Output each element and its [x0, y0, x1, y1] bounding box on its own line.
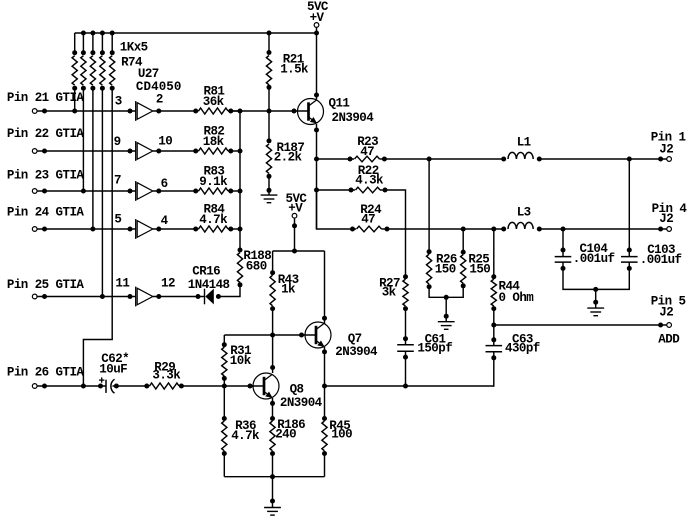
svg-text:1k: 1k	[281, 283, 296, 297]
wire: C63 to rail (bend)	[491, 351, 496, 386]
resistor R36	[222, 386, 227, 477]
svg-text:4.3k: 4.3k	[355, 173, 384, 187]
svg-text:100: 100	[331, 428, 352, 442]
label R187	[277, 141, 305, 155]
power terminal 5VC +V (top)	[314, 23, 319, 33]
label +V (mid supply)	[288, 201, 303, 215]
ground (R26/R25)	[438, 322, 455, 330]
wire: bottom rail	[224, 474, 324, 479]
svg-text:CR16: CR16	[192, 265, 220, 279]
buffer U27 D (pins 5->4)	[136, 219, 153, 239]
wire: Q7 emitter node to R45	[322, 384, 327, 422]
label 36k (R81 value)	[203, 95, 225, 109]
label 240 (R186 value)	[275, 428, 296, 442]
svg-text:+V: +V	[310, 11, 325, 25]
capacitor C104 .001uf	[555, 257, 572, 263]
label C104	[580, 242, 609, 256]
label Pin 24 GTIA	[7, 206, 85, 220]
wire: ADD line to Pin 5 J2	[494, 323, 667, 328]
label R83	[204, 165, 225, 179]
svg-text:7: 7	[114, 174, 121, 188]
svg-text:9: 9	[114, 135, 121, 149]
wire: Q7 emitter rail to C61/C63	[325, 384, 494, 389]
wire: Pin 22 to buffer input	[37, 149, 136, 154]
label 3.3k (R29 value)	[152, 368, 181, 382]
resistor R25	[461, 229, 466, 288]
resistor R31	[222, 342, 227, 386]
resistor R21	[266, 33, 271, 111]
svg-text:2.2k: 2.2k	[274, 151, 303, 165]
label 47 (R24 value)	[361, 212, 375, 226]
label R27	[379, 277, 400, 291]
pin number 4 (buffer output)	[161, 214, 169, 228]
svg-text:9.1k: 9.1k	[199, 175, 228, 189]
wire: emitter node corner to R24	[317, 190, 357, 232]
resistor R44	[491, 229, 496, 311]
svg-text:36k: 36k	[203, 95, 225, 109]
svg-text:Pin 23 GTIA: Pin 23 GTIA	[7, 168, 85, 182]
svg-text:Pin 21 GTIA: Pin 21 GTIA	[7, 91, 85, 105]
resistor R187	[266, 111, 271, 195]
label R31	[230, 344, 251, 358]
terminal Pin 4 J2	[667, 227, 672, 232]
label Q7	[348, 332, 362, 346]
wire: L3 to Pin 4 J2	[539, 227, 667, 232]
terminal Pin 23 GTIA	[32, 189, 37, 194]
resistor R83	[199, 188, 234, 194]
wire: buffer 6 output to R83	[153, 189, 199, 194]
wire: Q7 collector	[322, 251, 327, 324]
wire: buffer 2 output to R81	[153, 109, 199, 114]
junction: pull-up on Pin24 row	[90, 227, 95, 232]
svg-text:3.3k: 3.3k	[152, 368, 181, 382]
junction: rail row23	[238, 189, 243, 194]
wire: L3 row to C104	[561, 229, 566, 257]
label 1.5k (R21 value)	[280, 62, 309, 76]
label 1N4148 (CR16 value)	[188, 278, 230, 292]
capacitor C62* 10uF (polarized)	[99, 377, 115, 393]
resistor R74 element 3 (1K)	[90, 33, 95, 91]
resistor R188	[237, 248, 242, 288]
wire: Pin 24 to buffer input	[37, 227, 136, 232]
diode CR16 1N4148	[205, 289, 214, 305]
svg-text:Q11: Q11	[329, 97, 350, 111]
label Pin 22 GTIA	[7, 127, 85, 141]
label R82	[204, 125, 225, 139]
label R21	[283, 53, 304, 67]
inductor L1	[501, 152, 542, 161]
svg-text:0 Ohm: 0 Ohm	[499, 291, 535, 305]
label C61	[425, 332, 446, 346]
wire: R24 to L3	[387, 227, 504, 232]
label Q11	[329, 97, 350, 111]
terminal Pin 25 GTIA	[32, 294, 37, 299]
svg-text:47: 47	[361, 212, 375, 226]
label 5VC (mid supply)	[286, 192, 308, 206]
wire: pull-up 2 to Pin23 row	[82, 88, 84, 191]
svg-text:2N3904: 2N3904	[280, 396, 323, 410]
junction: pull-up on Pin23 row	[81, 189, 86, 194]
terminal Pin 26 GTIA	[32, 384, 37, 389]
wire: Q7 emitter down	[322, 347, 327, 386]
label 2N3904 (Q11)	[332, 111, 375, 125]
svg-text:.001uf: .001uf	[573, 252, 615, 266]
buffer U27 A (pins 3->2)	[136, 101, 153, 121]
label J2 (Pin 5)	[659, 306, 673, 320]
pin number 12 (buffer output)	[161, 276, 175, 290]
label 10k (R31 value)	[230, 354, 252, 368]
svg-text:3: 3	[115, 95, 122, 109]
label 10uF (C62 value)	[99, 363, 127, 377]
label R45	[329, 419, 350, 433]
label 5VC (top supply)	[307, 0, 329, 14]
svg-text:10k: 10k	[230, 354, 252, 368]
svg-text:L1: L1	[517, 136, 531, 150]
label +V (top supply)	[310, 11, 325, 25]
pin number 5 (buffer input)	[114, 213, 121, 227]
junction dots on +5V bus	[81, 31, 319, 36]
svg-text:J2: J2	[659, 212, 673, 226]
buffer U27 E (pins 11->12)	[136, 287, 153, 307]
wire: Q8 emitter down	[270, 398, 275, 419]
wire: R23 to L1	[382, 157, 504, 162]
pin number 11 (buffer input)	[115, 276, 129, 290]
ground (bottom rail)	[264, 508, 281, 516]
svg-text:2: 2	[156, 93, 163, 107]
wire: Pin 23 to buffer input	[37, 189, 136, 194]
terminal Pin 1 J2	[667, 157, 672, 162]
pin number 9 (buffer input)	[114, 135, 121, 149]
svg-text:J2: J2	[659, 143, 673, 157]
label 430pf (C63 value)	[505, 342, 540, 356]
terminal Pin 24 GTIA	[32, 227, 37, 232]
wire: Pin21 row to Q11 base	[228, 109, 308, 114]
svg-text:.001uf: .001uf	[640, 253, 682, 267]
label R24	[360, 203, 382, 217]
pin number 2 (buffer output)	[156, 93, 163, 107]
label 47 (R23 value)	[360, 145, 374, 159]
label L3	[517, 206, 531, 220]
svg-text:2N3904: 2N3904	[335, 345, 378, 359]
transistor Q8 2N3904	[253, 373, 279, 399]
resistor R74 element 5 (1K)	[110, 33, 115, 91]
svg-text:2N3904: 2N3904	[332, 111, 375, 125]
label R188	[243, 249, 271, 263]
label CR16	[192, 265, 220, 279]
resistor R74 element 1 (1K)	[72, 33, 77, 91]
wire: R82 to summing rail	[228, 150, 240, 152]
wire: buffer 10 output to R82	[153, 149, 199, 154]
wire: pull-up 1 to Pin21 row	[74, 88, 76, 111]
svg-text:10uF: 10uF	[99, 363, 127, 377]
label J2 (Pin 1)	[659, 143, 673, 157]
wire: summing rail (buffer outputs)	[239, 111, 241, 250]
wire: buffer 4 output to R84	[153, 227, 199, 232]
ground (C104/C103)	[587, 308, 604, 316]
label R25	[468, 253, 489, 267]
resistor R23	[355, 156, 387, 162]
terminal Pin 21 GTIA	[32, 109, 37, 114]
label R81	[204, 85, 225, 99]
wire: Q7 base line	[224, 333, 315, 338]
wire: pull-up 3 to Pin24 row	[92, 88, 94, 229]
wire: base node to R31 (bend)	[223, 335, 225, 345]
label 2.2k (R187 value)	[274, 151, 303, 165]
label 4.3k (R22 value)	[355, 173, 384, 187]
wire: R43 to Q7 base node	[270, 309, 275, 338]
label 100 (R45 value)	[331, 428, 352, 442]
wire: R44 to C63	[491, 309, 496, 346]
terminal Pin 22 GTIA	[32, 149, 37, 154]
resistor R74 element 4 (1K)	[100, 33, 105, 91]
label Pin 4	[652, 202, 688, 216]
label Pin 1	[651, 131, 686, 145]
terminal Pin 5 J2	[667, 323, 672, 328]
buffer U27 C (pins 7->6)	[136, 181, 153, 201]
label 1k (R43 value)	[281, 283, 296, 297]
junction: pull-up on Pin21 row	[72, 109, 77, 114]
junction: rail row21	[238, 109, 243, 114]
label 2N3904 (Q8)	[280, 396, 323, 410]
label .001uf (C103 value)	[640, 253, 682, 267]
wire: C104/C103 common to ground	[561, 262, 632, 308]
label L1	[517, 136, 531, 150]
label J2 (Pin 4)	[659, 212, 673, 226]
wire: R188 to CR16 cathode net	[216, 285, 240, 299]
svg-text:240: 240	[275, 428, 296, 442]
resistor R186	[270, 416, 275, 477]
svg-text:10: 10	[158, 135, 172, 149]
label 3k (R27 value)	[382, 286, 397, 300]
svg-text:4.7k: 4.7k	[199, 213, 228, 227]
IC U27 label	[138, 67, 159, 81]
label Pin 23 GTIA	[7, 168, 85, 182]
svg-text:J2: J2	[659, 306, 673, 320]
label .001uf (C104 value)	[573, 252, 615, 266]
svg-text:5: 5	[114, 213, 121, 227]
label 4.7k (R36 value)	[231, 429, 260, 443]
svg-text:4.7k: 4.7k	[231, 429, 260, 443]
label Pin 21 GTIA	[7, 91, 85, 105]
capacitor C63 430pf	[486, 346, 503, 352]
wire: +5V top bus	[75, 32, 317, 34]
resistor R29	[150, 383, 184, 389]
label 150 (R25 value)	[469, 263, 490, 277]
capacitor C103 .001uf	[621, 257, 638, 263]
svg-text:Pin 25 GTIA: Pin 25 GTIA	[7, 278, 85, 292]
svg-text:150: 150	[435, 263, 456, 277]
wire: R43 node to Q8 collector	[270, 335, 275, 373]
label 150pf (C61 value)	[417, 342, 452, 356]
pin number 10 (buffer output)	[158, 135, 172, 149]
label Pin 26 GTIA	[7, 365, 85, 379]
label ADD	[658, 333, 680, 347]
wire: Pin 21 to buffer input	[37, 109, 136, 114]
wire: Pin 26 to C62	[37, 384, 106, 389]
label 1Kx5 (R74 value)	[120, 41, 148, 55]
wire: 5V bus to Q11 collector	[314, 33, 319, 99]
svg-text:430pf: 430pf	[505, 342, 540, 356]
svg-text:12: 12	[161, 276, 175, 290]
label C63	[512, 332, 533, 346]
svg-text:18k: 18k	[203, 135, 225, 149]
svg-text:Q7: Q7	[348, 332, 362, 346]
resistor R82	[199, 148, 234, 154]
wire: emitter node to R23	[317, 157, 355, 162]
wire: emitter node to R22	[317, 188, 356, 193]
svg-text:1N4148: 1N4148	[188, 278, 230, 292]
label R43	[278, 273, 299, 287]
label Pin 25 GTIA	[7, 278, 85, 292]
label 9.1k (R83 value)	[199, 175, 228, 189]
label Q8	[290, 383, 304, 397]
resistor R45	[322, 421, 327, 477]
label 18k (R82 value)	[203, 135, 225, 149]
svg-text:Q8: Q8	[290, 383, 304, 397]
buffer U27 B (pins 9->10)	[136, 141, 153, 161]
wire: pull-up 5 to Pin26 row (bend)	[83, 88, 112, 386]
wire: pull-up 4 to Pin25 row	[101, 88, 103, 296]
svg-text:L3: L3	[517, 206, 531, 220]
wire: R83 to summing rail	[228, 190, 240, 192]
wire: R29 to Q8 base	[179, 384, 263, 389]
svg-text:Pin 26 GTIA: Pin 26 GTIA	[7, 365, 85, 379]
label R22	[358, 164, 379, 178]
label Pin 5	[651, 295, 686, 309]
wire: Pin 25 to buffer input	[37, 294, 136, 299]
label 4.7k (R84 value)	[199, 213, 228, 227]
svg-text:6: 6	[161, 177, 168, 191]
label 680 (R188 value)	[246, 260, 267, 274]
resistor R27	[403, 274, 408, 311]
transistor Q7 2N3904	[305, 322, 331, 348]
svg-text:ADD: ADD	[658, 333, 680, 347]
wire: Q11 emitter down	[314, 124, 319, 229]
svg-text:1Kx5: 1Kx5	[120, 41, 148, 55]
wire: 5V to R43 and Q7 collector	[273, 250, 325, 252]
resistor R24	[357, 226, 390, 232]
wire: C103 column from L1 row	[627, 159, 632, 257]
label R44	[499, 279, 521, 293]
svg-text:680: 680	[246, 260, 267, 274]
svg-text:150pf: 150pf	[417, 342, 452, 356]
junction: pull-up on Pin25 row	[100, 294, 105, 299]
svg-text:3k: 3k	[382, 286, 397, 300]
label R186	[277, 418, 305, 432]
wire: buffer 12 output to CR16	[153, 294, 205, 299]
transistor Q11 2N3904	[298, 99, 324, 125]
svg-text:150: 150	[469, 263, 490, 277]
wire: L1 row to R26	[428, 159, 430, 252]
junction: rail row22	[238, 149, 243, 154]
resistor R74 element 2 (1K)	[81, 33, 86, 91]
label 0 Ohm (R44 value)	[499, 291, 535, 305]
inductor L3	[501, 222, 542, 231]
resistor R22	[356, 187, 388, 193]
svg-text:+V: +V	[288, 201, 303, 215]
label R84	[204, 203, 226, 217]
wire: L1 to Pin 1 J2	[539, 157, 667, 162]
resistor R84	[199, 226, 234, 232]
label R74	[121, 56, 143, 70]
wire: bottom rail to ground	[270, 477, 275, 508]
label R23	[357, 135, 378, 149]
label 150 (R26 value)	[435, 263, 456, 277]
label R29	[154, 360, 175, 374]
wire: C61 to rail	[403, 351, 408, 386]
label C103	[647, 243, 675, 257]
ground (R187)	[261, 195, 278, 203]
wire: C62 to R29	[113, 384, 150, 389]
wire: R26/R25 common to ground	[429, 286, 463, 322]
pin number 6 (buffer output)	[161, 177, 168, 191]
pin number 7 (buffer input)	[114, 174, 121, 188]
pin number 3 (buffer input)	[115, 95, 122, 109]
label 2N3904 (Q7)	[335, 345, 378, 359]
wire: R81 to summing rail	[228, 110, 240, 112]
svg-text:47: 47	[360, 145, 374, 159]
label R36	[235, 419, 256, 433]
svg-text:4: 4	[161, 214, 169, 228]
label R26	[436, 253, 457, 267]
resistor R81	[199, 108, 234, 114]
resistor R43	[270, 251, 275, 311]
resistor R26	[427, 249, 432, 289]
svg-text:Pin 22 GTIA: Pin 22 GTIA	[7, 127, 85, 141]
capacitor C61 150pf	[397, 345, 414, 351]
label C62*	[101, 352, 129, 366]
junction: rail row24	[238, 227, 243, 232]
svg-text:Pin 24 GTIA: Pin 24 GTIA	[7, 206, 85, 220]
wire: R27 to C61	[403, 309, 408, 345]
wire: R22 to R27 (bend)	[383, 190, 406, 277]
wire: R84 to summing rail	[228, 228, 240, 230]
svg-text:11: 11	[115, 276, 129, 290]
svg-text:1.5k: 1.5k	[280, 62, 309, 76]
IC CD4050 label	[136, 80, 182, 94]
svg-text:U27: U27	[138, 67, 159, 81]
power terminal 5VC +V (mid)	[292, 213, 297, 253]
